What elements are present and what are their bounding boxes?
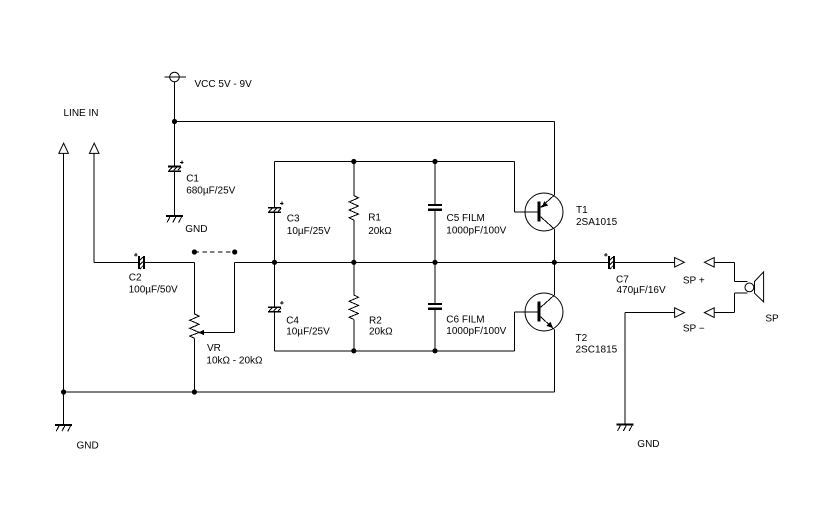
wire SP+ to speaker — [714, 261, 734, 263]
wire output to C7 — [554, 261, 608, 263]
wire C1 to ground — [174, 172, 176, 215]
svg-text:GND: GND — [77, 441, 99, 452]
wire ground rail — [64, 391, 555, 393]
node R2 bottom junction — [351, 348, 356, 353]
svg-text:C2: C2 — [129, 273, 142, 284]
svg-text:LINE IN: LINE IN — [64, 108, 99, 119]
resistor R2 — [349, 295, 393, 338]
svg-text:R1: R1 — [368, 213, 381, 224]
wire T2 emitter to ground rail — [553, 330, 555, 393]
svg-text:1000pF/100V: 1000pF/100V — [446, 226, 506, 237]
potentiometer VR — [190, 314, 263, 367]
svg-text:VR: VR — [207, 343, 221, 354]
wire R1 bottom — [353, 220, 355, 262]
svg-text:C1: C1 — [186, 174, 199, 185]
transistor T1 — [525, 193, 618, 231]
svg-text:10µF/25V: 10µF/25V — [287, 226, 331, 237]
svg-text:C4: C4 — [286, 316, 299, 327]
wire T2 collector to output — [553, 262, 555, 295]
wire base top rail — [275, 161, 515, 163]
terminal SP+ output arrow — [675, 258, 685, 268]
svg-text:2SC1815: 2SC1815 — [576, 345, 618, 356]
svg-text:SP −: SP − — [683, 324, 705, 335]
wire SP- ground branch — [624, 313, 626, 424]
wire line-in to C2 — [94, 261, 138, 263]
svg-text:2SA1015: 2SA1015 — [576, 217, 618, 228]
wire VCC node to C1 — [174, 122, 176, 166]
capacitor C4 — [268, 301, 330, 338]
svg-text:100µF/50V: 100µF/50V — [129, 285, 178, 296]
svg-text:10µF/25V: 10µF/25V — [286, 327, 330, 338]
terminal LINE IN ground arrow — [59, 143, 69, 153]
wire VCC rail down to T1 emitter — [553, 122, 555, 196]
wire C5 top — [434, 162, 436, 204]
node C5-C6 junction — [432, 260, 437, 265]
wire to SP- terminal — [625, 312, 675, 314]
wire C2 to VR top — [145, 261, 195, 263]
node R1 top junction — [351, 159, 356, 164]
wire R2 bottom — [353, 319, 355, 350]
resistor R1 — [349, 196, 392, 238]
svg-text:VCC 5V - 9V: VCC 5V - 9V — [195, 79, 253, 90]
wire R1 top — [353, 162, 355, 196]
svg-text:SP +: SP + — [683, 276, 705, 287]
wire C3 top — [274, 162, 276, 207]
wire T1 collector to output — [553, 229, 555, 262]
svg-text:T2: T2 — [576, 333, 588, 344]
capacitor C5 — [428, 204, 507, 237]
svg-text:470µF/16V: 470µF/16V — [617, 285, 666, 296]
node C5 top junction — [432, 159, 437, 164]
wire VR wiper — [202, 332, 235, 334]
svg-text:20kΩ: 20kΩ — [369, 327, 393, 338]
terminal SP+ speaker arrow — [704, 258, 714, 268]
terminal SP- output arrow — [675, 308, 685, 318]
wire C4 top — [274, 262, 276, 306]
power VCC — [165, 72, 253, 90]
svg-text:680µF/25V: 680µF/25V — [186, 185, 235, 196]
node gang-link dot right — [232, 249, 237, 254]
capacitor C3 — [268, 202, 331, 238]
wire C4 bottom — [274, 313, 276, 351]
speaker SP — [745, 272, 779, 325]
svg-text:C3: C3 — [287, 214, 300, 225]
wire R2 top — [353, 262, 355, 295]
wire line-in ground lead — [63, 153, 65, 392]
wire C6 top — [434, 262, 436, 303]
wire base bottom rail — [275, 350, 515, 352]
svg-text:GND: GND — [185, 224, 207, 235]
transistor T2 — [525, 293, 618, 356]
node input junction — [272, 260, 277, 265]
ground GND at SP- — [616, 424, 659, 451]
wire top rail to T1 base — [514, 162, 516, 213]
svg-text:10kΩ - 20kΩ: 10kΩ - 20kΩ — [206, 356, 263, 367]
svg-text:1000pF/100V: 1000pF/100V — [446, 326, 506, 337]
wire VCC rail — [175, 121, 555, 123]
wire C7 to SP+ terminal — [615, 261, 675, 263]
node VCC junction — [172, 119, 177, 124]
ground GND bottom left — [55, 424, 99, 452]
wire dashed gang link — [194, 251, 234, 253]
svg-text:T1: T1 — [576, 205, 588, 216]
wire SP- to speaker — [714, 312, 734, 314]
node C6 bottom junction — [432, 348, 437, 353]
wire C6 bottom — [434, 310, 436, 351]
wire VR bottom to ground rail — [193, 338, 195, 392]
node R1-R2 junction — [351, 260, 356, 265]
node gang-link dot left — [192, 249, 197, 254]
wire C3 bottom — [274, 213, 276, 262]
svg-text:R2: R2 — [369, 316, 382, 327]
wire C5 bottom — [434, 211, 436, 262]
wire VCC symbol to rail — [174, 82, 176, 122]
svg-text:C6 FILM: C6 FILM — [446, 315, 484, 326]
node output junction — [552, 260, 557, 265]
ground GND at C1 — [166, 215, 208, 235]
terminal LINE IN signal arrow — [89, 143, 99, 153]
capacitor C2 — [129, 253, 178, 296]
wire bottom rail to T2 base — [514, 312, 516, 351]
capacitor C7 — [604, 253, 666, 296]
capacitor C6 — [428, 303, 507, 337]
svg-text:C7: C7 — [616, 274, 629, 285]
wire mid rail — [275, 261, 555, 263]
svg-text:C5 FILM: C5 FILM — [447, 213, 485, 224]
wire line-in signal lead — [93, 153, 95, 262]
svg-text:SP: SP — [765, 314, 779, 325]
terminal SP- speaker arrow — [704, 308, 714, 318]
node ground rail VR junction — [192, 389, 197, 394]
wire ground stub — [63, 392, 65, 424]
svg-text:20kΩ: 20kΩ — [368, 226, 392, 237]
capacitor C1 — [168, 161, 236, 197]
node ground rail left junction — [61, 389, 66, 394]
svg-text:GND: GND — [637, 439, 659, 450]
